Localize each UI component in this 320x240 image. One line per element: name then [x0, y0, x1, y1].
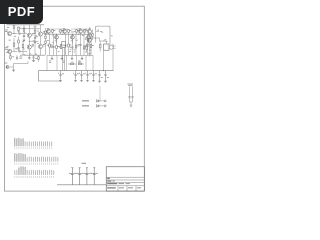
- wire loop drop: [95, 30, 97, 43]
- terminal: [104, 100, 106, 102]
- label: [85, 28, 87, 31]
- ground: [71, 57, 74, 59]
- capacitor C34: [105, 71, 107, 75]
- bus return horizontal: [39, 80, 61, 82]
- wire: [12, 33, 18, 35]
- relay K1: [104, 44, 109, 50]
- wire: [12, 50, 18, 52]
- wire: [99, 100, 104, 102]
- emitter bus 2: [47, 54, 93, 56]
- wire: [34, 25, 36, 30]
- capacitor C21: [73, 71, 79, 82]
- ground: [12, 69, 15, 71]
- capacitor C22: [79, 71, 85, 82]
- wire: [23, 25, 25, 29]
- trimmer VR1: [60, 45, 62, 49]
- label: [47, 39, 49, 42]
- wire: [99, 105, 104, 107]
- ground: [80, 79, 83, 81]
- label: [5, 29, 8, 32]
- wire: [81, 55, 83, 58]
- capacitor C23: [85, 71, 91, 82]
- label: [20, 56, 23, 59]
- diode D1: [45, 31, 46, 33]
- wire: [82, 63, 85, 65]
- label: [43, 30, 46, 33]
- capacitor C30: [91, 168, 98, 185]
- transistor Q5: [47, 30, 51, 34]
- capacitor C36: [33, 56, 35, 58]
- resistor R37: [99, 45, 101, 48]
- label: [32, 32, 35, 35]
- capacitor C29: [84, 168, 91, 185]
- capacitor C10: [72, 34, 74, 47]
- wire: [13, 67, 15, 70]
- wire: [28, 49, 30, 55]
- terminal: [104, 105, 106, 107]
- wire: [33, 55, 35, 57]
- capacitor C20: [58, 71, 64, 82]
- PDF badge overlay: [0, 0, 43, 24]
- wire tick end: [27, 61, 29, 63]
- wire: [34, 39, 36, 42]
- wire drop to bus: [56, 55, 58, 70]
- capacitor C8: [65, 34, 67, 45]
- label: [107, 76, 109, 79]
- transistor Q8: [71, 35, 75, 39]
- label: [35, 57, 37, 60]
- diode D4 label: [82, 105, 89, 106]
- label: [34, 26, 37, 29]
- label: [101, 76, 103, 79]
- resistor R36: [92, 34, 93, 37]
- resistor R10: [13, 43, 15, 46]
- wire: [20, 33, 27, 35]
- connector pin stub J6: [6, 66, 9, 69]
- transistor Q10: [87, 35, 91, 39]
- wire: [45, 28, 47, 31]
- wire: [18, 30, 20, 33]
- node: [103, 70, 104, 71]
- wire drop to bus: [66, 55, 68, 70]
- resistor R25: [75, 45, 77, 48]
- wire right drop: [112, 44, 114, 71]
- wire: [9, 66, 14, 68]
- capacitor C27: [69, 168, 76, 185]
- wire: [10, 53, 12, 55]
- resistor R32: [79, 63, 82, 65]
- output loop wire (rounded corners): [96, 26, 111, 44]
- node: [14, 33, 15, 34]
- label: [32, 44, 34, 47]
- resistor R35: [10, 56, 11, 59]
- input connector J2: [8, 49, 12, 53]
- resistor R9: [18, 27, 20, 30]
- label: [85, 37, 88, 40]
- capacitor C12: [80, 34, 82, 44]
- ground: [86, 79, 89, 81]
- wire: [38, 55, 40, 56]
- ground: [61, 57, 64, 59]
- driver transistor Q12: [87, 38, 91, 42]
- wire: [40, 36, 42, 44]
- wire: [68, 63, 71, 65]
- ground: [51, 57, 54, 59]
- wire: [13, 38, 15, 43]
- wire output: [90, 37, 96, 39]
- wire: [51, 55, 53, 58]
- wire drop to bus: [92, 55, 94, 70]
- capacitor C26: [132, 87, 134, 97]
- emitter bus wire: [20, 54, 45, 56]
- label: [71, 61, 74, 64]
- wire: [20, 28, 41, 30]
- wire: [130, 101, 133, 103]
- label: [43, 43, 45, 46]
- resistor R14: [52, 30, 53, 33]
- wire to indicator: [99, 86, 101, 101]
- wire: [28, 25, 30, 34]
- label: [49, 60, 51, 63]
- connector J4 pin labels: [15, 153, 59, 164]
- resistor R29: [90, 45, 92, 48]
- label: [103, 40, 106, 43]
- bus return vertical: [38, 71, 40, 81]
- ground: [59, 79, 62, 81]
- wire long tick: [14, 63, 29, 65]
- ground: [74, 79, 77, 81]
- wire: [13, 64, 15, 68]
- ground: [23, 39, 26, 41]
- label: [18, 30, 20, 33]
- wire: [40, 25, 42, 32]
- wire: [16, 55, 18, 57]
- resistor R11: [23, 28, 25, 31]
- wire: [22, 41, 24, 44]
- transistor Q4: [38, 44, 42, 48]
- capacitor C25 label: [128, 83, 134, 86]
- wire: [99, 41, 101, 45]
- resistor R27: [83, 46, 85, 49]
- node: [56, 34, 57, 35]
- capacitor C2: [18, 50, 20, 52]
- speaker SP1: [109, 45, 113, 49]
- capacitor C4: [34, 37, 36, 39]
- label: [63, 60, 65, 63]
- label for cap bank: [82, 163, 87, 164]
- label: [5, 46, 8, 49]
- wire drop to bus: [46, 55, 48, 70]
- wire: [40, 49, 42, 56]
- wire: [96, 37, 100, 39]
- transistor Q2: [27, 45, 31, 49]
- wire: [18, 49, 20, 52]
- ground: [34, 41, 37, 43]
- transistor Q6: [55, 35, 59, 39]
- wire: [28, 37, 30, 45]
- transistor Q9: [79, 30, 83, 34]
- wire pair down: [62, 48, 64, 71]
- label: [5, 62, 8, 65]
- connector J3 pin labels: [15, 138, 53, 149]
- title block: [106, 167, 144, 191]
- wire: [23, 36, 25, 39]
- signal rail: [44, 33, 93, 35]
- component value labels group: [6, 27, 113, 56]
- node: [23, 41, 24, 42]
- wire: [61, 55, 63, 58]
- capacitor C33: [99, 71, 101, 75]
- wire: [130, 102, 132, 105]
- connector J5 pin labels: [15, 166, 55, 177]
- wire drop to bus: [85, 55, 87, 70]
- wire: [89, 27, 91, 29]
- capacitor C24: [91, 71, 97, 82]
- resistor R13: [34, 30, 36, 33]
- capacitor C1: [18, 33, 20, 35]
- driver transistor Q11: [87, 29, 91, 33]
- resistor R21: [56, 46, 58, 49]
- capacitor C14: [87, 34, 89, 45]
- wire: [29, 40, 38, 42]
- title block text: [107, 178, 141, 189]
- V+ left rail (under badge): [7, 24, 45, 26]
- transistor Q1: [27, 33, 31, 37]
- capacitor C3: [23, 34, 25, 36]
- node output: [95, 38, 96, 39]
- capacitor C37: [16, 56, 18, 58]
- wire: [86, 44, 88, 47]
- label: [18, 48, 20, 51]
- node: [29, 41, 30, 42]
- resistor R34: [38, 57, 39, 60]
- label: [79, 61, 82, 64]
- ground: [92, 79, 95, 81]
- wire: [34, 42, 36, 55]
- input connector J1: [8, 32, 12, 36]
- opto coupler U2: [62, 42, 66, 48]
- resistor R33: [18, 40, 20, 43]
- speaker terminals: [113, 45, 115, 47]
- signal rail upper segment 1: [47, 28, 66, 30]
- ground: [32, 59, 35, 61]
- supply wire (bottom): [57, 184, 106, 186]
- resistor R17: [76, 30, 77, 33]
- resistor R16: [68, 30, 69, 33]
- wire: [71, 55, 73, 58]
- ground: [81, 57, 84, 59]
- ground arrow: [130, 105, 132, 107]
- wire: [28, 55, 30, 57]
- wire: [89, 54, 91, 57]
- capacitor C35: [18, 47, 20, 49]
- wire: [13, 28, 15, 33]
- capacitor C6: [53, 34, 55, 46]
- sheet border frame: [4, 6, 144, 191]
- label: [78, 60, 81, 63]
- wire: [103, 50, 105, 70]
- resistor R12: [22, 45, 24, 48]
- resistor R31: [71, 63, 74, 65]
- transistor Q3: [38, 32, 42, 36]
- transistor Q7: [63, 30, 67, 34]
- wire: [105, 41, 107, 44]
- wire: [100, 40, 107, 42]
- ground bus (bottom of amp): [39, 70, 114, 72]
- resistor R18: [84, 30, 85, 33]
- signal rail upper segment 2: [71, 28, 91, 30]
- diode D3: [97, 100, 99, 103]
- wire: [18, 37, 20, 41]
- ground: [28, 57, 31, 59]
- capacitor C25: [129, 87, 131, 97]
- wire: [92, 30, 94, 34]
- label: [47, 44, 49, 47]
- diode D3 label: [82, 100, 89, 101]
- resistor R8: [13, 25, 15, 28]
- diode D4: [97, 105, 99, 108]
- diode D2: [45, 36, 46, 38]
- resistor R30: [86, 47, 87, 50]
- resistor R23: [68, 44, 70, 47]
- wire drop to bus: [76, 55, 78, 70]
- wire: [20, 50, 27, 52]
- diode D5: [45, 41, 46, 43]
- capacitor C38: [89, 52, 91, 54]
- resistor R19: [49, 44, 51, 47]
- resistor R15: [60, 30, 61, 33]
- label: [12, 55, 14, 58]
- capacitor C28: [76, 168, 83, 185]
